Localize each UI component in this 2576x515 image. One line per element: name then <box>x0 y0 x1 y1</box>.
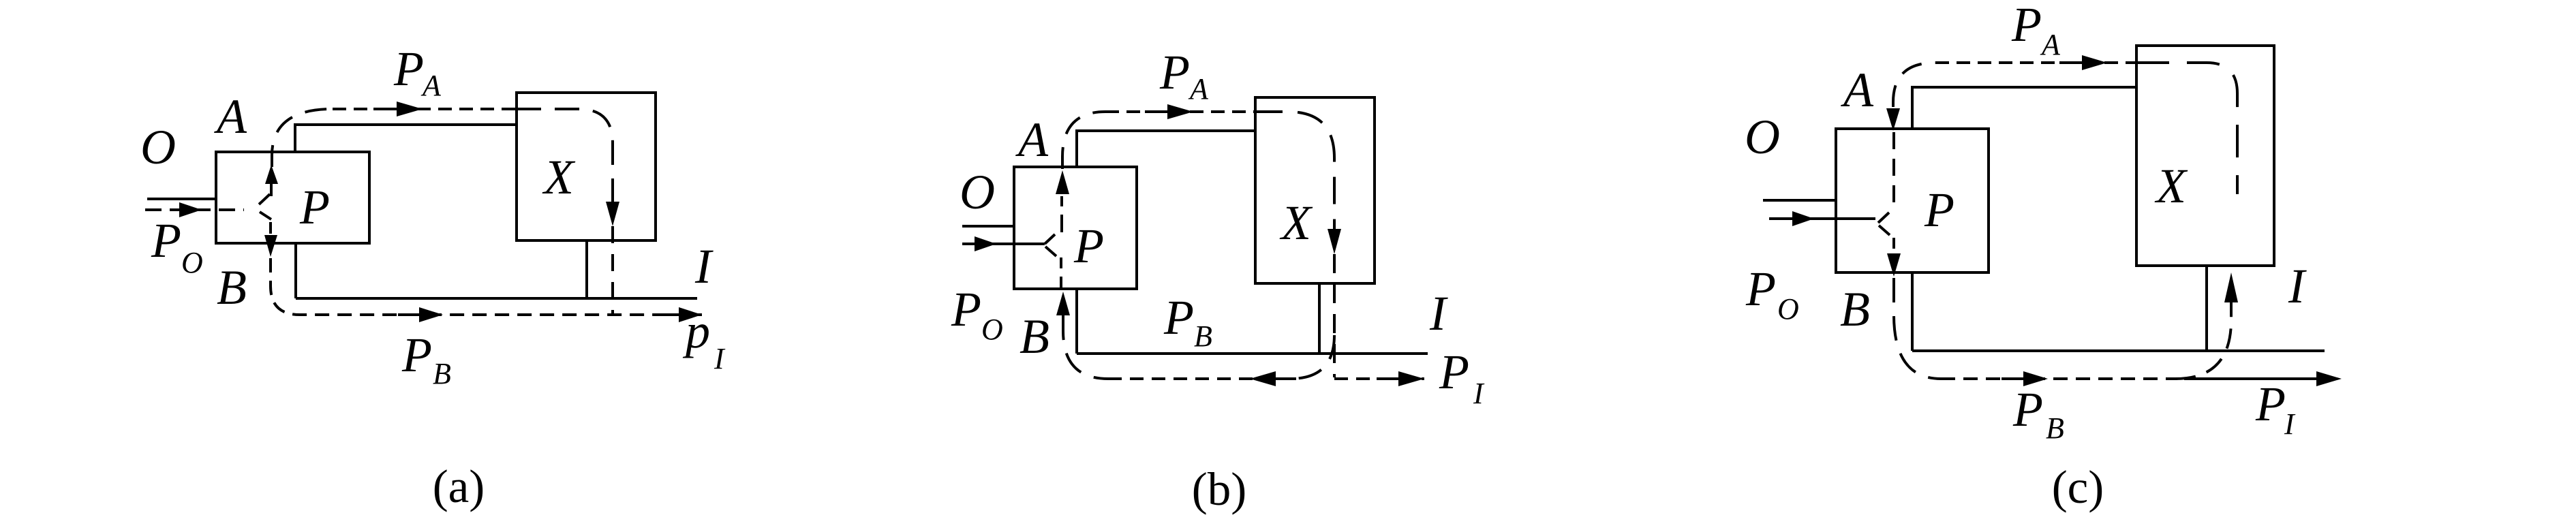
wire: solid stub X bottom <box>585 240 588 298</box>
svg-text:P: P <box>401 328 432 382</box>
svg-text:A: A <box>1188 72 1209 106</box>
wire: input lower solid line P_O <box>962 243 1045 245</box>
arrow on input line <box>975 236 996 251</box>
svg-text:I: I <box>1473 377 1485 410</box>
arrow right to P_I <box>1377 377 1398 380</box>
wire: dashed P_A horizontal <box>333 108 517 110</box>
branch symbol inside P <box>1878 213 1890 235</box>
svg-text:P: P <box>393 42 424 96</box>
svg-text:P: P <box>951 282 981 337</box>
arrow on P_A line <box>1145 110 1167 113</box>
arrow down inside X <box>1328 229 1341 254</box>
block P <box>1014 167 1137 289</box>
svg-text:A: A <box>2040 28 2061 61</box>
wire: solid stub X bottom <box>2205 266 2208 351</box>
svg-text:P: P <box>1439 345 1469 399</box>
svg-text:I: I <box>1429 286 1448 341</box>
svg-text:X: X <box>1279 196 1313 250</box>
arrow down inside P (B branch) <box>264 235 277 257</box>
svg-text:I: I <box>694 239 714 294</box>
arrow up inside P (A branch) <box>1056 170 1069 194</box>
block X <box>2136 46 2274 266</box>
wire: solid drop from P bottom <box>1075 289 1078 354</box>
wire: dashed P_A horizontal <box>1935 61 2136 64</box>
svg-text:I: I <box>2288 259 2307 313</box>
svg-text:X: X <box>2154 159 2188 213</box>
arrow end of output line p_I <box>657 313 679 316</box>
svg-text:B: B <box>433 357 451 390</box>
wire: dashed P_B bottom line left part <box>1108 377 1287 380</box>
svg-text:P: P <box>1073 219 1104 273</box>
svg-text:P: P <box>1163 290 1194 345</box>
wire: input lower solid line P_O <box>1769 217 1875 220</box>
wire: dashed curve B below P <box>1063 315 1108 379</box>
arrow on P_B line <box>2002 377 2023 380</box>
arrow left on bottom line <box>1276 377 1296 380</box>
wire: dashed curve up into X <box>2175 302 2231 379</box>
svg-text:B: B <box>1194 319 1212 353</box>
wire: dashed drop from X to output line <box>611 226 614 315</box>
wire: dashed curve B below P <box>1894 278 1941 379</box>
svg-text:O: O <box>1745 110 1780 164</box>
wire: dashed path inside X curving down <box>1255 112 1334 229</box>
wire: dashed bottom line right part to P_I <box>1334 377 1424 380</box>
svg-text:P: P <box>299 180 330 234</box>
wire: dashed stem up to A arrow <box>1060 196 1063 232</box>
svg-text:P: P <box>2011 0 2042 52</box>
arrow down out of P bottom (B) <box>1887 253 1901 277</box>
svg-text:B: B <box>217 260 247 315</box>
svg-text:O: O <box>1777 292 1799 326</box>
svg-text:B: B <box>2046 411 2064 445</box>
wire: solid A riser from P top <box>1077 131 1255 167</box>
wire: solid drop from P bottom <box>294 243 297 298</box>
wire: dashed curve A above P <box>1893 63 1935 107</box>
wire: dashed stem from top edge down to branch <box>1892 132 1895 210</box>
wire: solid drop from P bottom <box>1911 272 1914 351</box>
svg-text:(c): (c) <box>2052 461 2104 513</box>
block P <box>216 152 369 243</box>
wire: dashed drop from X to bottom line <box>1333 254 1336 377</box>
svg-text:I: I <box>2284 407 2296 441</box>
arrow up inside P (A branch) <box>265 165 278 184</box>
wire: dashed path inside X curving down right side <box>2136 63 2237 194</box>
arrow down inside X <box>606 202 619 226</box>
svg-text:X: X <box>542 150 576 204</box>
arrow right to P_I <box>2316 371 2342 386</box>
svg-text:P: P <box>151 213 181 268</box>
svg-text:A: A <box>420 69 442 102</box>
wire: dashed P_B bottom line <box>1941 377 2177 380</box>
arrow up into P bottom (B) <box>1056 292 1070 315</box>
arrow on P_A line <box>2059 61 2082 64</box>
wire: solid I line <box>1912 349 2325 352</box>
arrow down into P top (A) <box>1886 108 1900 131</box>
wire: dashed path inside X curving down <box>517 109 613 203</box>
wire: dashed stem below branch to B arrow <box>1892 238 1895 255</box>
wire: solid A riser from P top <box>1912 87 2136 129</box>
svg-text:O: O <box>981 313 1003 346</box>
svg-text:B: B <box>1019 309 1049 364</box>
wire: input upper solid line O <box>962 225 1014 228</box>
wire: solid P_I output line <box>2184 377 2316 380</box>
block P <box>1836 129 1989 272</box>
svg-text:p: p <box>682 304 710 358</box>
wire: input upper solid line O <box>1763 199 1836 202</box>
svg-text:O: O <box>140 120 176 174</box>
svg-text:O: O <box>181 246 203 279</box>
arrow on input line <box>179 202 202 217</box>
wire: solid I line <box>1077 352 1428 355</box>
block X <box>1255 97 1375 283</box>
svg-text:A: A <box>1015 112 1049 167</box>
svg-text:(a): (a) <box>433 461 485 512</box>
wire: dashed stem below branch <box>1060 257 1062 289</box>
wire: input dashed line P_O into P <box>145 208 244 211</box>
wire: dashed stem up to A arrow <box>270 183 273 196</box>
wire: dashed curve B out of P bottom and P_B line <box>271 258 702 315</box>
wire: dashed P_A horizontal <box>1105 110 1255 113</box>
block X <box>517 93 656 240</box>
svg-text:I: I <box>714 342 726 375</box>
svg-text:P: P <box>2012 382 2043 437</box>
wire: input upper solid line O <box>147 198 216 200</box>
wire: dashed stem down to B arrow <box>269 222 272 234</box>
branch symbol inside P <box>259 194 271 219</box>
svg-text:(b): (b) <box>1192 463 1246 515</box>
svg-text:P: P <box>1745 262 1776 316</box>
wire: dashed curve A out of P top <box>272 109 333 167</box>
wire: dashed curve A out of P top <box>1062 112 1105 169</box>
wire: dashed curve X exit to left <box>1290 335 1334 379</box>
arrow mid on P_B line <box>398 313 419 316</box>
wire: solid A riser from P top <box>295 125 517 152</box>
wire: solid stub X bottom <box>1318 283 1321 354</box>
svg-text:P: P <box>2255 377 2286 431</box>
svg-text:A: A <box>214 89 247 144</box>
svg-text:B: B <box>1840 282 1870 337</box>
svg-text:O: O <box>960 165 995 219</box>
arrow up into X bottom <box>2224 272 2238 302</box>
branch symbol inside P <box>1045 234 1056 256</box>
arrow on P_A line <box>373 108 397 110</box>
arrow on input line <box>1792 211 1814 226</box>
svg-text:A: A <box>1841 63 1874 117</box>
wire: solid I line <box>296 297 697 300</box>
svg-text:P: P <box>1924 183 1954 237</box>
svg-text:P: P <box>1159 45 1190 99</box>
